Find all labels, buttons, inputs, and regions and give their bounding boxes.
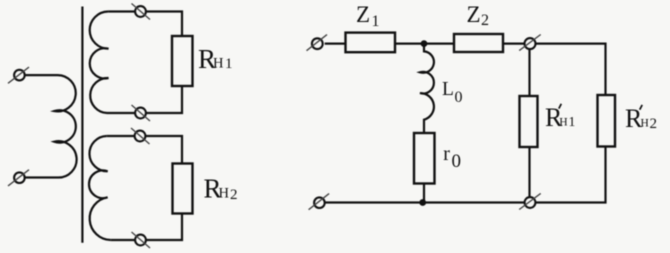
svg-text:2: 2 <box>230 187 238 203</box>
svg-text:r: r <box>443 143 450 165</box>
svg-text:2: 2 <box>481 12 489 29</box>
svg-text:0: 0 <box>455 89 463 106</box>
svg-text:H: H <box>219 185 230 201</box>
svg-text:H: H <box>641 118 649 130</box>
svg-text:L: L <box>442 79 454 100</box>
svg-text:1: 1 <box>569 114 576 129</box>
svg-text:H: H <box>213 56 224 72</box>
svg-text:0: 0 <box>452 151 462 172</box>
svg-text:Z: Z <box>467 2 481 27</box>
svg-text:1: 1 <box>225 56 233 72</box>
svg-text:1: 1 <box>372 13 380 30</box>
svg-text:H: H <box>559 116 568 129</box>
svg-text:2: 2 <box>650 116 658 132</box>
svg-text:Z: Z <box>356 2 370 27</box>
